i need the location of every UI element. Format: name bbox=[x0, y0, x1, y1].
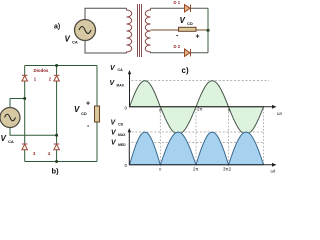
node dot top of middle rail bbox=[55, 64, 58, 67]
node dot source-top / left rail junction bbox=[23, 97, 26, 100]
diode D2 bbox=[185, 49, 191, 56]
wire: middle rail (bridge) bbox=[56, 66, 58, 162]
label V_med (bottom plot) bbox=[111, 140, 126, 148]
wire: center tap to load resistor bbox=[151, 29, 179, 31]
svg-text:a): a) bbox=[54, 24, 60, 31]
diode D1 bbox=[185, 5, 191, 12]
wire: secondary top tap to D1 bbox=[151, 7, 185, 9]
resistor load (circuit b) bbox=[95, 106, 100, 122]
svg-text:CD: CD bbox=[187, 21, 193, 26]
svg-text:3π2: 3π2 bbox=[223, 167, 232, 172]
label V_CD (circuit a) bbox=[180, 16, 193, 26]
transformer T1 secondary coil with center tap bbox=[145, 8, 150, 53]
svg-text:b): b) bbox=[52, 167, 60, 176]
svg-text:CD: CD bbox=[81, 111, 87, 116]
svg-text:MED: MED bbox=[118, 143, 126, 147]
svg-text:π: π bbox=[228, 108, 231, 113]
svg-text:2π: 2π bbox=[193, 167, 199, 172]
diode 2 bbox=[54, 75, 60, 81]
diode 3 bbox=[22, 144, 28, 150]
x axis (top plot) bbox=[130, 106, 275, 108]
wire: source a) bottom stub and bottom wire to primary bbox=[85, 41, 127, 54]
svg-text:MAX: MAX bbox=[117, 84, 125, 88]
y axis arrowhead (bottom plot) bbox=[128, 128, 131, 132]
svg-text:+: + bbox=[86, 101, 90, 108]
x axis arrowhead (bottom plot) bbox=[272, 163, 277, 167]
dashed Vmax level line (bottom plot) bbox=[132, 131, 265, 133]
svg-text:CA: CA bbox=[72, 40, 78, 45]
svg-text:π: π bbox=[159, 167, 162, 172]
transformer T1 primary coil bbox=[127, 8, 132, 53]
dashed vertical grid line at pi bbox=[159, 109, 161, 165]
wire: D2 to right rail bbox=[191, 52, 209, 54]
svg-text:CA: CA bbox=[8, 139, 14, 144]
wire: bottom rail (bridge) bbox=[25, 161, 97, 163]
label V_CD (circuit b) bbox=[74, 105, 87, 116]
svg-text:ωt: ωt bbox=[277, 111, 283, 116]
wire: resistor to junction bbox=[196, 29, 208, 31]
svg-text:ωt: ωt bbox=[271, 169, 277, 174]
x axis (bottom plot) bbox=[129, 164, 274, 166]
svg-text:V: V bbox=[74, 105, 80, 114]
wire: left rail (bridge) bbox=[24, 66, 26, 162]
svg-text:2π: 2π bbox=[197, 107, 203, 112]
label V_CA (circuit a) bbox=[65, 35, 78, 45]
wire: right rail (bridge) bbox=[96, 66, 98, 162]
node dot bottom of middle rail bbox=[55, 160, 58, 163]
svg-text:V: V bbox=[180, 16, 186, 25]
svg-text:c): c) bbox=[182, 66, 189, 75]
node junction dot (circuit a) bbox=[206, 29, 209, 32]
wire: secondary bottom tap to D2 bbox=[151, 52, 185, 54]
y axis (top plot) bbox=[129, 72, 131, 107]
wire: D1 to right rail bbox=[191, 7, 209, 9]
y axis (bottom plot) bbox=[128, 130, 130, 165]
label V_max (bottom plot) bbox=[111, 130, 126, 138]
resistor load (circuit a) bbox=[179, 27, 197, 31]
AC source V_CA (circuit b) bbox=[0, 108, 20, 128]
svg-text:Diodos: Diodos bbox=[34, 68, 49, 73]
wire: source a) top stub and top wire to primary bbox=[85, 8, 127, 19]
svg-text:V: V bbox=[65, 35, 71, 44]
label V_CD (bottom plot) bbox=[111, 120, 124, 127]
diode 1 bbox=[22, 75, 28, 81]
dashed vertical grid line at 4pi bbox=[263, 109, 265, 165]
svg-text:MAX: MAX bbox=[118, 133, 126, 137]
AC source V_CA (circuit a) bbox=[75, 20, 96, 41]
svg-text:V: V bbox=[1, 134, 7, 143]
svg-text:π: π bbox=[159, 108, 162, 113]
transformer core bbox=[138, 4, 142, 57]
dashed vertical grid line at 2pi bbox=[195, 109, 197, 165]
dashed vertical grid line at 3pi bbox=[228, 109, 230, 165]
wire: top rail (bridge) bbox=[25, 65, 97, 67]
dashed Vmax level line (top plot) bbox=[132, 80, 270, 82]
node dot source-bottom / middle rail junction bbox=[55, 134, 58, 137]
dashed Vmed level line (bottom plot) bbox=[132, 141, 265, 143]
wire: source b) top stub to left rail bbox=[10, 99, 25, 108]
svg-text:D 1: D 1 bbox=[174, 0, 181, 5]
label V_max (top plot) bbox=[110, 80, 125, 88]
diode 4 bbox=[54, 144, 60, 150]
svg-text:CD: CD bbox=[118, 123, 124, 127]
wire: right rail (circuit a) bbox=[207, 8, 209, 52]
svg-text:+: + bbox=[196, 34, 200, 41]
V_CA sine waveform (top plot) bbox=[130, 81, 264, 135]
label V_CA (circuit b) bbox=[1, 134, 14, 144]
V_CD rectified waveform (bottom plot) bbox=[130, 132, 264, 165]
wire: source b) bottom stub to middle rail bbox=[10, 128, 57, 136]
label V_CA (top plot) bbox=[110, 65, 123, 72]
x axis arrowhead (top plot) bbox=[272, 105, 277, 109]
y axis arrowhead (top plot) bbox=[128, 70, 131, 74]
svg-text:D 2: D 2 bbox=[174, 44, 181, 49]
svg-text:CA: CA bbox=[118, 68, 124, 72]
